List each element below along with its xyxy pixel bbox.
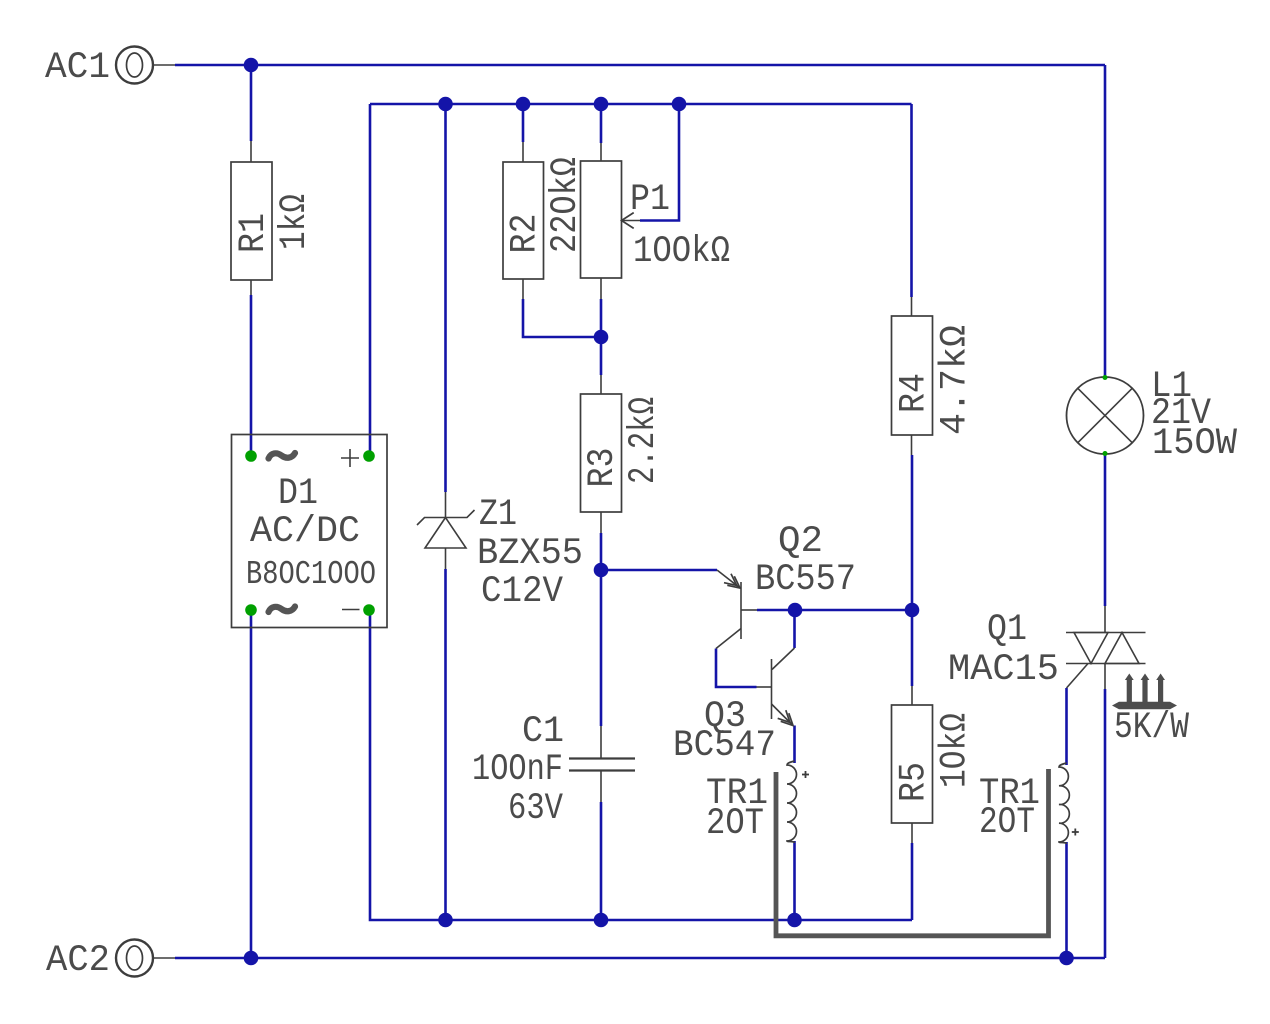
svg-text:BC557: BC557	[755, 559, 856, 601]
svg-text:MAC15: MAC15	[948, 649, 1059, 691]
svg-text:Q1: Q1	[987, 609, 1027, 651]
svg-text:R1: R1	[233, 213, 275, 253]
svg-text:R2: R2	[505, 214, 547, 254]
svg-text:AC/DC: AC/DC	[250, 511, 360, 553]
svg-text:AC1: AC1	[45, 47, 110, 89]
svg-text:2OT: 2OT	[979, 802, 1035, 844]
svg-text:BZX55: BZX55	[477, 533, 583, 575]
svg-text:AC2: AC2	[46, 940, 110, 982]
svg-text:R3: R3	[582, 448, 624, 488]
svg-text:Q2: Q2	[778, 521, 823, 563]
svg-text:B8OC1OOO: B8OC1OOO	[246, 556, 376, 593]
svg-text:22OkΩ: 22OkΩ	[545, 157, 587, 253]
svg-text:1OkΩ: 1OkΩ	[935, 713, 977, 788]
svg-text:2.2kΩ: 2.2kΩ	[623, 397, 665, 484]
svg-text:P1: P1	[630, 179, 670, 221]
svg-text:BC547: BC547	[673, 725, 776, 767]
svg-text:63V: 63V	[508, 788, 563, 830]
svg-text:15OW: 15OW	[1152, 423, 1238, 465]
svg-text:1kΩ: 1kΩ	[274, 194, 316, 250]
svg-text:2OT: 2OT	[706, 803, 764, 845]
svg-text:C1: C1	[522, 711, 564, 753]
svg-text:C12V: C12V	[481, 571, 563, 613]
svg-text:R5: R5	[894, 762, 936, 802]
svg-text:R4: R4	[894, 373, 936, 413]
svg-text:1OOkΩ: 1OOkΩ	[633, 231, 730, 273]
svg-text:Z1: Z1	[479, 494, 517, 536]
svg-text:1OOnF: 1OOnF	[472, 749, 563, 791]
svg-text:5K/W: 5K/W	[1114, 707, 1190, 749]
svg-text:4.7kΩ: 4.7kΩ	[935, 325, 977, 435]
svg-text:D1: D1	[278, 473, 318, 515]
